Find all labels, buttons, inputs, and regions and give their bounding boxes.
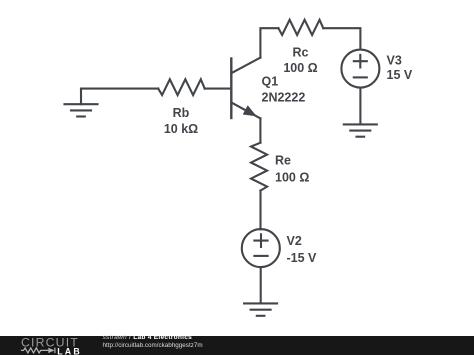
svg-text:100 Ω: 100 Ω (275, 171, 309, 185)
ground left (65, 89, 98, 117)
svg-text:LAB: LAB (57, 346, 82, 355)
wire V2 to ground (260, 267, 262, 303)
label Re value (275, 154, 309, 185)
source V2 (242, 229, 280, 267)
credit text (103, 334, 203, 349)
resistor Rc (278, 20, 323, 35)
label Rb value (164, 106, 198, 136)
label V2 value (287, 234, 318, 265)
ground under V3 (344, 124, 377, 136)
ground under V2 (244, 303, 277, 315)
transistor Q1 (231, 58, 260, 119)
svg-text:Q1: Q1 (262, 75, 279, 89)
label Rc value (283, 46, 317, 76)
wire Re to V2 (259, 191, 261, 230)
footer bar (0, 336, 474, 355)
svg-text:Rb: Rb (173, 106, 190, 120)
resistor Re (251, 143, 267, 191)
wire top to V3 (323, 28, 360, 49)
svg-text:10 kΩ: 10 kΩ (164, 122, 198, 136)
svg-text:V3: V3 (387, 54, 402, 68)
svg-text:-15 V: -15 V (287, 251, 318, 265)
svg-text:100 Ω: 100 Ω (283, 61, 317, 75)
wire V3 to ground (359, 88, 361, 125)
wire base-right (205, 88, 231, 90)
wire base-left (81, 88, 158, 90)
source V3 (341, 50, 379, 88)
wire collector riser (260, 28, 278, 57)
svg-text:V2: V2 (287, 234, 302, 248)
svg-text:Re: Re (275, 154, 291, 168)
resistor Rb (158, 79, 205, 95)
svg-text:15 V: 15 V (387, 68, 413, 82)
label Q1 2N2222 (262, 75, 306, 105)
label V3 value (387, 54, 413, 83)
svg-text:Rc: Rc (293, 46, 309, 60)
svg-text:2N2222: 2N2222 (262, 91, 306, 105)
wire emitter to Re (259, 118, 261, 142)
CircuitLab logo (19, 336, 89, 355)
